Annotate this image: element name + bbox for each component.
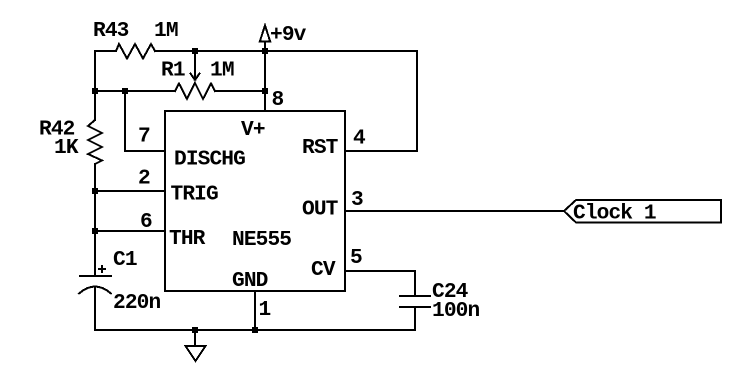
- svg-text:Clock 1: Clock 1: [573, 202, 656, 226]
- wire right drop to pin 4: [346, 51, 417, 151]
- wire top rail right segment: [155, 50, 417, 52]
- capacitor C24: [400, 296, 430, 330]
- wire pin 1: [254, 291, 256, 330]
- svg-text:8: 8: [272, 88, 284, 112]
- wire pin 5 CV: [346, 271, 415, 296]
- junction pin2 / left vertical: [92, 188, 98, 194]
- power +9v symbol: [260, 26, 270, 42]
- svg-text:RST: RST: [302, 136, 339, 160]
- wire left vertical to C1: [94, 164, 96, 275]
- svg-text:DISCHG: DISCHG: [174, 148, 245, 172]
- wire pin 7: [125, 91, 164, 151]
- wire pin 2: [95, 190, 164, 192]
- svg-text:7: 7: [138, 125, 150, 149]
- svg-text:100n: 100n: [432, 299, 479, 323]
- svg-text:4: 4: [353, 127, 366, 151]
- junction top rail / pin8: [262, 48, 268, 54]
- junction bottom rail / ground: [192, 327, 198, 333]
- junction pin6 / left vertical: [92, 228, 98, 234]
- svg-text:NE555: NE555: [232, 228, 291, 252]
- resistor R1: [175, 83, 215, 99]
- svg-text:5: 5: [350, 246, 362, 270]
- junction second rail / pin8: [262, 88, 268, 94]
- svg-text:2: 2: [138, 167, 150, 191]
- wire pin 3 OUT: [346, 210, 564, 212]
- svg-text:V+: V+: [241, 118, 265, 142]
- svg-text:R43: R43: [93, 19, 129, 43]
- svg-text:C1: C1: [113, 248, 137, 272]
- svg-text:TRIG: TRIG: [171, 183, 218, 207]
- wire second rail left: [95, 90, 175, 92]
- svg-text:3: 3: [351, 188, 363, 212]
- svg-text:1M: 1M: [154, 19, 178, 43]
- svg-text:R1: R1: [161, 59, 185, 83]
- capacitor C1: [79, 266, 111, 330]
- junction top rail / wiper: [192, 48, 198, 54]
- wire R1 wiper from top rail: [194, 51, 196, 79]
- svg-text:OUT: OUT: [302, 198, 339, 222]
- svg-text:THR: THR: [169, 227, 206, 251]
- svg-text:220n: 220n: [113, 291, 160, 315]
- wire pin 6: [95, 230, 164, 232]
- wiper arrowhead: [191, 74, 200, 81]
- ground: [186, 330, 206, 361]
- svg-text:1M: 1M: [210, 59, 234, 83]
- resistor R43: [116, 44, 155, 59]
- junction second rail / left vertical: [92, 88, 98, 94]
- resistor R42: [88, 120, 102, 164]
- wire left vertical upper: [94, 51, 96, 120]
- IC U1 NE555 body: [165, 111, 345, 291]
- wire bottom rail: [95, 329, 415, 331]
- svg-text:+9v: +9v: [270, 23, 307, 47]
- node Clock 1 flag: [564, 200, 721, 223]
- wire second rail right: [215, 90, 265, 92]
- junction second rail / pin7: [122, 88, 128, 94]
- junction bottom rail / pin1: [252, 327, 258, 333]
- wire top rail left segment: [95, 50, 116, 52]
- svg-text:1K: 1K: [54, 136, 79, 160]
- svg-text:GND: GND: [232, 269, 268, 293]
- wire pin 8 vertical: [264, 42, 266, 109]
- svg-text:6: 6: [140, 210, 152, 234]
- svg-text:CV: CV: [311, 258, 336, 282]
- svg-text:1: 1: [259, 298, 271, 322]
